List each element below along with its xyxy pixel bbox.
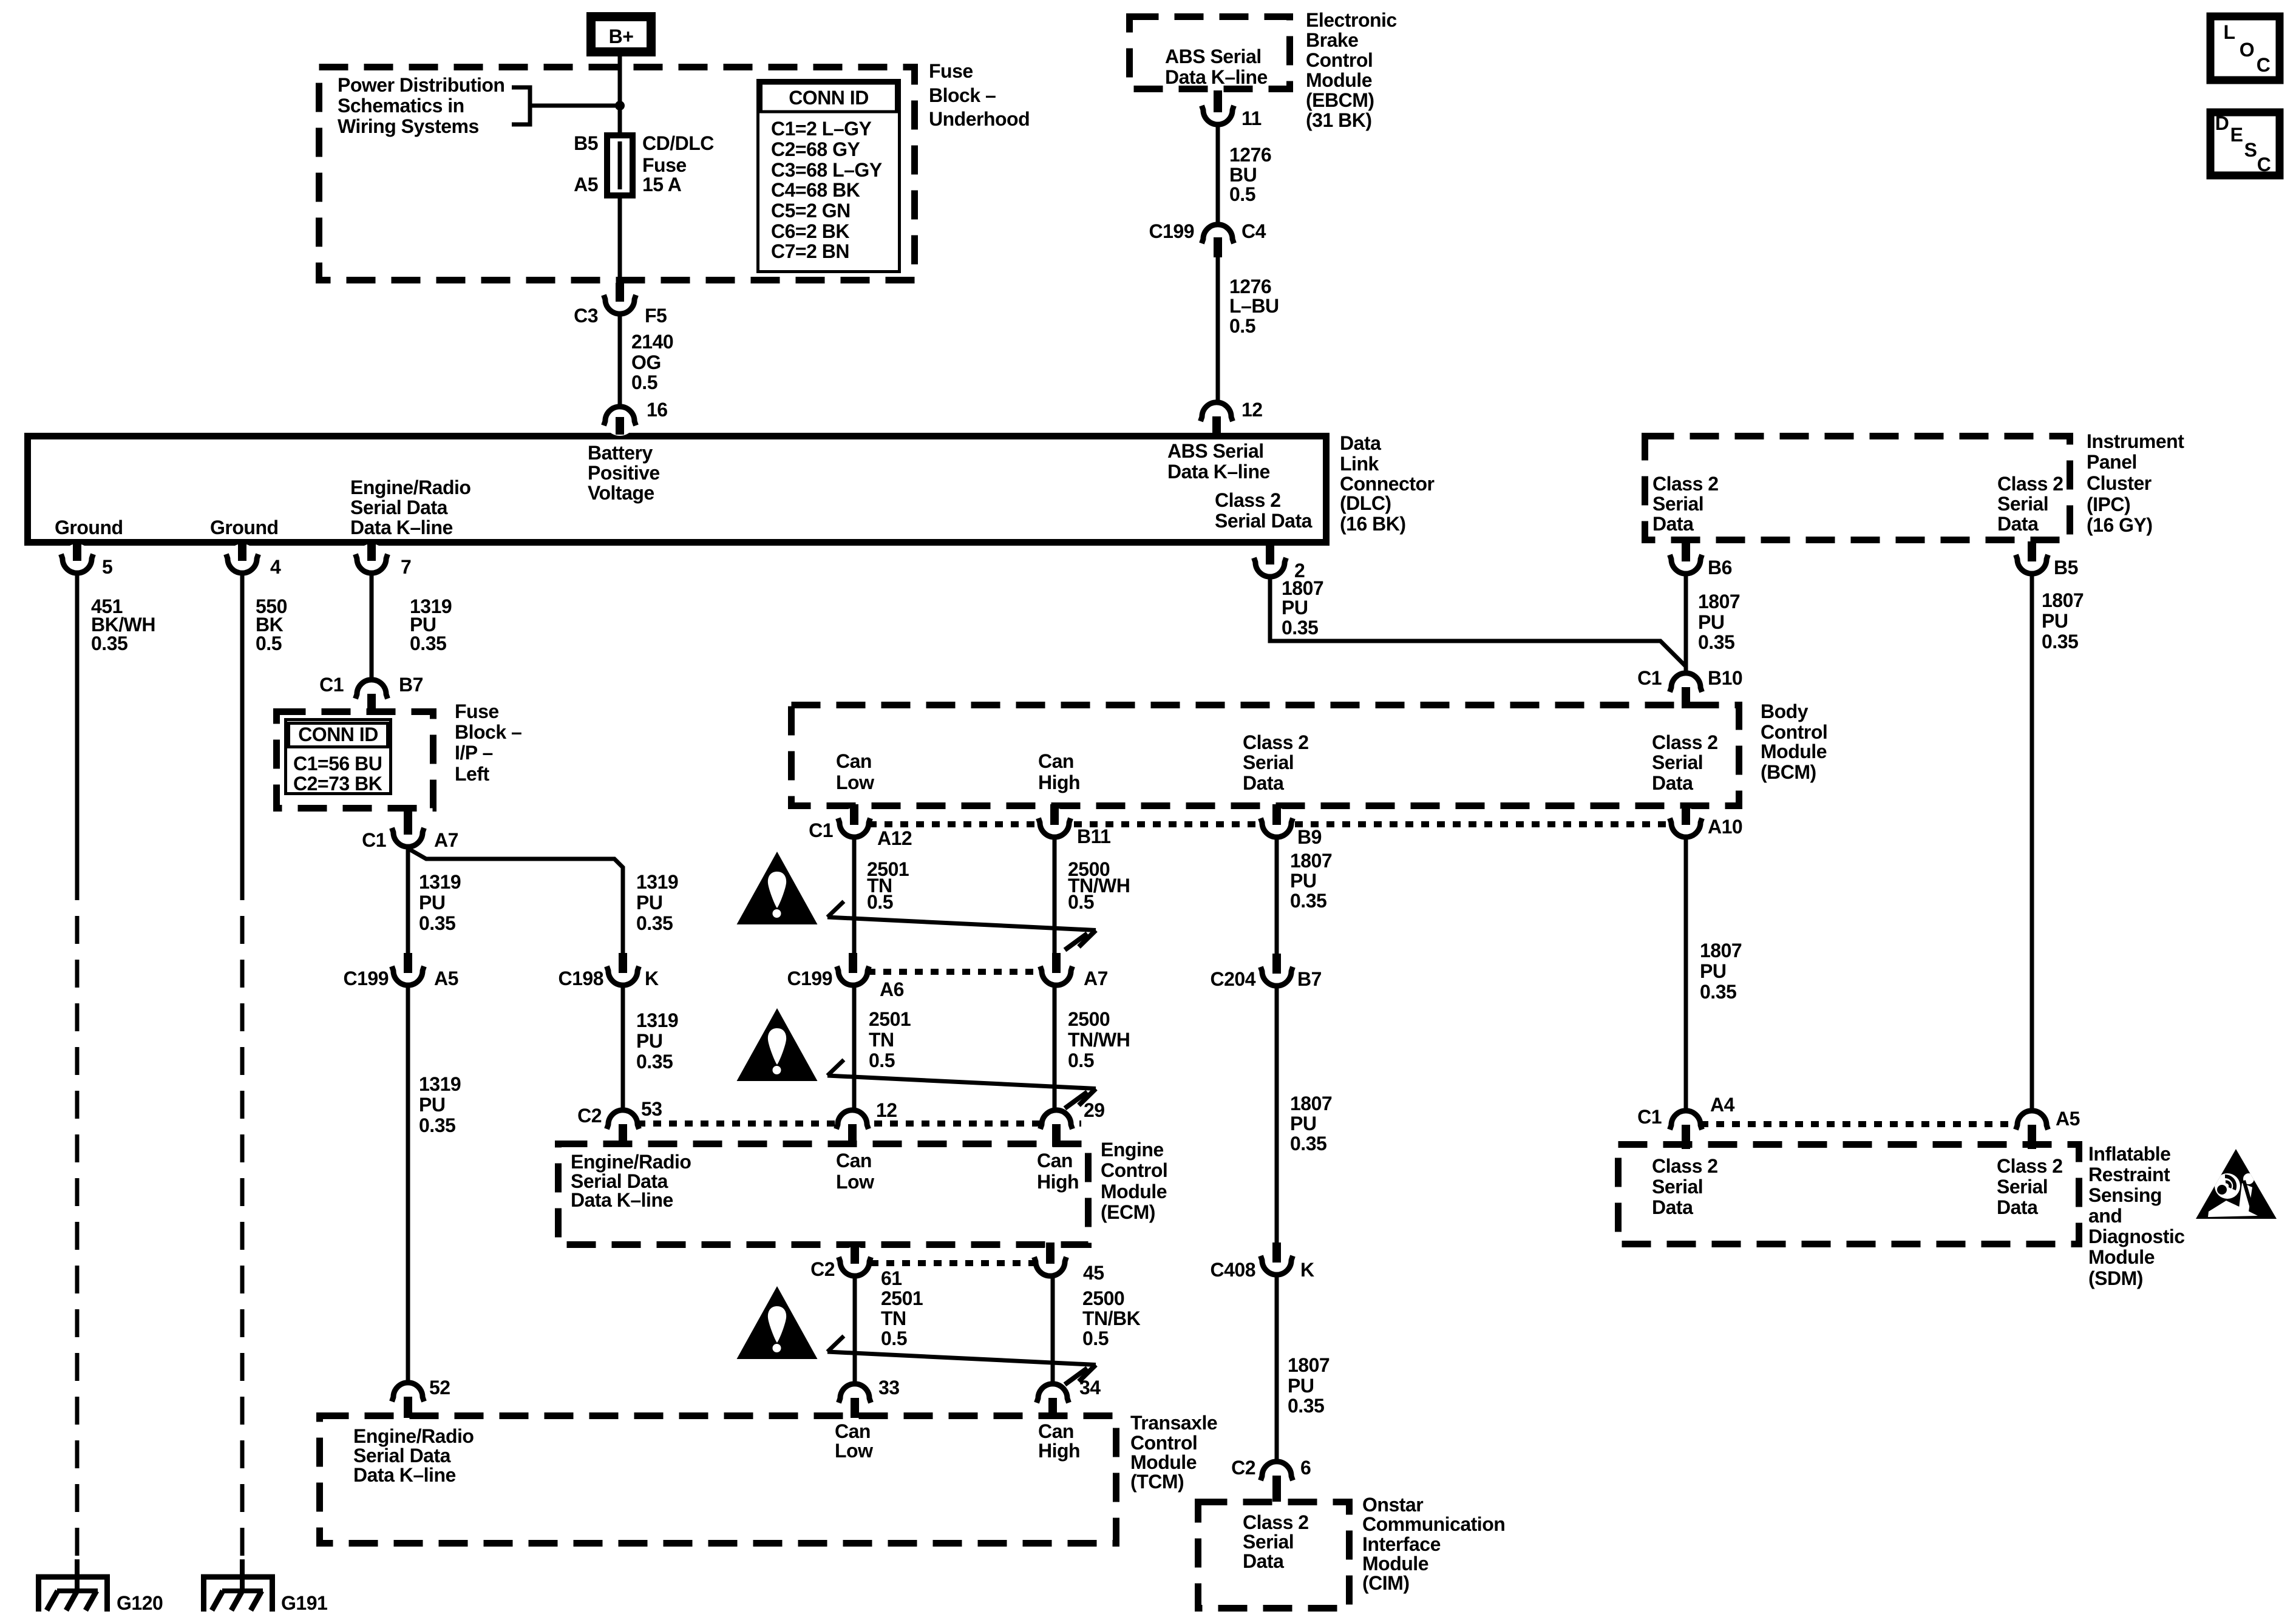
svg-text:Restraint: Restraint — [2088, 1164, 2170, 1185]
svg-text:0.5: 0.5 — [1068, 891, 1094, 913]
svg-text:Data K–line: Data K–line — [1167, 461, 1270, 483]
svg-text:C2=73 BK: C2=73 BK — [293, 773, 382, 795]
svg-text:A7: A7 — [434, 829, 458, 851]
svg-text:C5=2 GN: C5=2 GN — [771, 200, 851, 222]
svg-text:Connector: Connector — [1340, 473, 1435, 495]
svg-text:Data K–line: Data K–line — [571, 1189, 673, 1211]
svg-text:C199: C199 — [787, 968, 833, 989]
svg-text:Class 2: Class 2 — [1215, 489, 1281, 511]
svg-text:Engine/Radio: Engine/Radio — [571, 1151, 691, 1173]
svg-text:C408: C408 — [1211, 1259, 1256, 1281]
svg-text:Serial: Serial — [1652, 751, 1703, 773]
svg-text:Can: Can — [836, 750, 872, 772]
svg-text:12: 12 — [1241, 399, 1263, 421]
svg-text:Module: Module — [1306, 69, 1372, 91]
svg-text:C: C — [2257, 154, 2271, 175]
svg-text:Control: Control — [1761, 721, 1827, 743]
svg-text:1319: 1319 — [636, 1009, 678, 1031]
svg-text:TN: TN — [869, 1029, 894, 1051]
svg-text:Class 2: Class 2 — [1652, 1155, 1718, 1177]
svg-text:0.35: 0.35 — [91, 632, 127, 654]
svg-text:CONN ID: CONN ID — [789, 87, 869, 109]
svg-text:0.5: 0.5 — [1068, 1049, 1094, 1071]
svg-text:0.35: 0.35 — [419, 1114, 455, 1136]
svg-text:C: C — [2257, 54, 2271, 76]
svg-text:G120: G120 — [117, 1592, 163, 1614]
svg-text:0.35: 0.35 — [410, 632, 446, 654]
svg-text:I/P –: I/P – — [455, 742, 493, 764]
svg-text:45: 45 — [1083, 1262, 1104, 1284]
svg-text:1319: 1319 — [419, 1073, 461, 1095]
svg-text:E: E — [2230, 124, 2243, 146]
svg-text:TN: TN — [881, 1307, 906, 1329]
svg-text:Data: Data — [1340, 432, 1381, 454]
svg-text:F5: F5 — [645, 305, 667, 327]
svg-text:B9: B9 — [1297, 826, 1322, 848]
svg-text:7: 7 — [401, 556, 411, 578]
svg-text:Serial: Serial — [1997, 1176, 2048, 1198]
svg-text:0.35: 0.35 — [1282, 617, 1318, 639]
svg-text:(DLC): (DLC) — [1340, 492, 1391, 514]
svg-text:(EBCM): (EBCM) — [1306, 89, 1374, 111]
svg-text:C1=56 BU: C1=56 BU — [293, 753, 382, 775]
svg-text:ABS Serial: ABS Serial — [1167, 440, 1264, 462]
svg-text:(SDM): (SDM) — [2088, 1267, 2143, 1289]
svg-text:(16 BK): (16 BK) — [1340, 513, 1406, 535]
svg-text:C198: C198 — [559, 968, 604, 989]
svg-text:C4=68 BK: C4=68 BK — [771, 179, 860, 201]
svg-text:PU: PU — [1698, 611, 1724, 633]
svg-text:Diagnostic: Diagnostic — [2088, 1225, 2185, 1247]
svg-text:BU: BU — [1229, 164, 1257, 186]
svg-text:Module: Module — [1362, 1553, 1428, 1575]
svg-text:L–BU: L–BU — [1229, 295, 1279, 317]
svg-text:C1: C1 — [319, 674, 344, 696]
svg-text:A4: A4 — [1710, 1094, 1735, 1116]
svg-text:12: 12 — [876, 1099, 897, 1121]
svg-text:OG: OG — [631, 351, 661, 373]
svg-text:0.35: 0.35 — [1290, 1133, 1326, 1154]
svg-text:0.35: 0.35 — [636, 912, 673, 934]
svg-text:2140: 2140 — [631, 331, 673, 353]
svg-text:Can: Can — [1037, 1150, 1073, 1171]
svg-text:PU: PU — [636, 1030, 662, 1052]
svg-text:Brake: Brake — [1306, 29, 1358, 51]
svg-text:0.35: 0.35 — [1288, 1395, 1324, 1417]
svg-text:Onstar: Onstar — [1362, 1494, 1423, 1516]
svg-text:Class 2: Class 2 — [1652, 731, 1718, 753]
svg-text:A6: A6 — [880, 978, 904, 1000]
svg-text:A5: A5 — [574, 174, 598, 195]
svg-text:0.5: 0.5 — [1229, 315, 1255, 337]
svg-text:Can: Can — [1038, 1420, 1074, 1442]
svg-text:4: 4 — [270, 556, 281, 578]
svg-text:PU: PU — [2042, 610, 2068, 632]
svg-text:2501: 2501 — [869, 1008, 911, 1030]
svg-text:1807: 1807 — [1698, 591, 1740, 612]
svg-text:53: 53 — [641, 1098, 662, 1120]
svg-text:High: High — [1037, 1171, 1079, 1193]
svg-text:1319: 1319 — [636, 871, 678, 893]
svg-text:Ground: Ground — [210, 517, 279, 538]
svg-text:C204: C204 — [1211, 968, 1256, 990]
svg-text:Data: Data — [1997, 513, 2039, 535]
svg-text:Cluster: Cluster — [2087, 472, 2152, 494]
svg-text:Module: Module — [1101, 1181, 1167, 1202]
svg-text:2500: 2500 — [1082, 1287, 1124, 1309]
svg-text:Data K–line: Data K–line — [1165, 66, 1268, 88]
svg-text:Panel: Panel — [2087, 451, 2137, 473]
svg-text:PU: PU — [419, 892, 445, 914]
svg-text:K: K — [1300, 1259, 1314, 1281]
svg-text:PU: PU — [1290, 870, 1316, 892]
svg-text:O: O — [2240, 39, 2254, 61]
svg-text:C1=2 L–GY: C1=2 L–GY — [771, 118, 872, 140]
svg-text:1807: 1807 — [1700, 940, 1742, 961]
svg-text:Serial: Serial — [1652, 1176, 1703, 1198]
svg-text:0.5: 0.5 — [631, 371, 657, 393]
svg-text:C7=2 BN: C7=2 BN — [771, 240, 849, 262]
svg-text:Instrument: Instrument — [2087, 430, 2184, 452]
svg-text:1807: 1807 — [2042, 589, 2084, 611]
svg-text:Schematics in: Schematics in — [338, 95, 464, 117]
svg-text:C2=68 GY: C2=68 GY — [771, 138, 860, 160]
svg-text:(ECM): (ECM) — [1101, 1201, 1155, 1223]
svg-text:Body: Body — [1761, 700, 1809, 722]
svg-text:A7: A7 — [1084, 968, 1108, 989]
svg-text:1807: 1807 — [1282, 577, 1323, 599]
svg-text:D: D — [2215, 112, 2229, 134]
svg-text:Link: Link — [1340, 453, 1379, 475]
svg-text:0.5: 0.5 — [256, 632, 282, 654]
svg-text:Low: Low — [835, 1440, 873, 1462]
svg-text:Low: Low — [836, 1171, 874, 1193]
svg-text:33: 33 — [878, 1377, 900, 1398]
svg-text:CONN ID: CONN ID — [298, 724, 378, 745]
svg-text:Inflatable: Inflatable — [2088, 1143, 2170, 1165]
svg-text:0.5: 0.5 — [1082, 1327, 1109, 1349]
svg-text:Data K–line: Data K–line — [350, 517, 453, 538]
svg-text:0.5: 0.5 — [869, 1049, 895, 1071]
svg-text:Communication: Communication — [1362, 1513, 1505, 1535]
svg-text:PU: PU — [1288, 1375, 1314, 1397]
svg-text:0.35: 0.35 — [636, 1051, 673, 1073]
svg-text:Serial Data: Serial Data — [1215, 510, 1313, 532]
svg-text:5: 5 — [102, 556, 112, 578]
svg-text:Can: Can — [1038, 750, 1074, 772]
svg-text:2500: 2500 — [1068, 1008, 1110, 1030]
svg-text:TN/BK: TN/BK — [1082, 1307, 1141, 1329]
svg-text:Battery: Battery — [588, 442, 653, 464]
svg-text:B10: B10 — [1708, 667, 1742, 689]
svg-text:Serial: Serial — [1243, 751, 1294, 773]
svg-text:0.35: 0.35 — [1290, 890, 1326, 912]
svg-text:Serial Data: Serial Data — [350, 497, 448, 518]
svg-text:16: 16 — [647, 399, 668, 421]
svg-text:Engine: Engine — [1101, 1139, 1164, 1161]
svg-text:C199: C199 — [344, 968, 389, 989]
svg-text:C199: C199 — [1149, 220, 1195, 242]
svg-text:1807: 1807 — [1288, 1354, 1330, 1376]
svg-text:2501: 2501 — [881, 1287, 923, 1309]
svg-text:(IPC): (IPC) — [2087, 493, 2130, 515]
svg-text:Module: Module — [1130, 1451, 1197, 1473]
svg-text:Engine/Radio: Engine/Radio — [353, 1425, 474, 1447]
svg-text:Transaxle: Transaxle — [1130, 1412, 1217, 1434]
svg-text:0.35: 0.35 — [1700, 981, 1736, 1003]
svg-text:C1: C1 — [1637, 667, 1662, 689]
svg-text:ABS Serial: ABS Serial — [1165, 46, 1262, 67]
svg-text:High: High — [1038, 1440, 1080, 1462]
svg-text:Data K–line: Data K–line — [353, 1464, 456, 1486]
svg-text:Control: Control — [1306, 49, 1373, 71]
svg-text:Voltage: Voltage — [588, 482, 654, 504]
svg-text:(TCM): (TCM) — [1130, 1471, 1184, 1493]
svg-text:1276: 1276 — [1229, 144, 1271, 166]
svg-text:1319: 1319 — [419, 871, 461, 893]
svg-text:B7: B7 — [399, 674, 423, 696]
svg-text:Class 2: Class 2 — [1997, 473, 2063, 495]
svg-text:C6=2 BK: C6=2 BK — [771, 220, 849, 242]
svg-text:Data: Data — [1652, 772, 1693, 794]
svg-text:6: 6 — [1300, 1457, 1311, 1479]
svg-text:B5: B5 — [574, 132, 598, 154]
svg-text:Can: Can — [835, 1420, 871, 1442]
svg-text:(31 BK): (31 BK) — [1306, 109, 1372, 131]
svg-text:A5: A5 — [2056, 1108, 2080, 1130]
svg-text:C1: C1 — [362, 829, 386, 851]
svg-text:29: 29 — [1084, 1099, 1105, 1121]
svg-text:Data: Data — [1243, 1550, 1284, 1572]
svg-text:61: 61 — [881, 1267, 902, 1289]
svg-text:0.5: 0.5 — [881, 1327, 907, 1349]
svg-text:High: High — [1038, 771, 1080, 793]
svg-text:B11: B11 — [1077, 825, 1110, 847]
svg-text:C1: C1 — [1637, 1106, 1662, 1128]
svg-text:Fuse: Fuse — [929, 60, 973, 82]
svg-text:Left: Left — [455, 763, 490, 785]
svg-text:Sensing: Sensing — [2088, 1184, 2162, 1206]
svg-text:0.35: 0.35 — [2042, 631, 2078, 653]
svg-text:A10: A10 — [1708, 816, 1742, 838]
svg-text:S: S — [2244, 139, 2257, 161]
svg-text:Control: Control — [1101, 1159, 1167, 1181]
svg-text:(CIM): (CIM) — [1362, 1572, 1409, 1594]
svg-text:Module: Module — [1761, 741, 1827, 762]
svg-text:Data: Data — [1243, 772, 1284, 794]
svg-text:0.35: 0.35 — [1698, 631, 1734, 653]
svg-text:B6: B6 — [1708, 557, 1732, 578]
svg-text:C2: C2 — [810, 1258, 835, 1280]
svg-text:Serial: Serial — [1652, 493, 1703, 515]
svg-text:Data: Data — [1652, 513, 1694, 535]
svg-text:B+: B+ — [609, 25, 634, 47]
svg-text:Wiring Systems: Wiring Systems — [338, 115, 479, 137]
svg-text:Power Distribution: Power Distribution — [338, 74, 504, 96]
svg-text:Module: Module — [2088, 1246, 2155, 1268]
svg-text:Positive: Positive — [588, 462, 660, 484]
svg-text:Low: Low — [836, 771, 874, 793]
svg-text:52: 52 — [429, 1377, 450, 1398]
svg-text:TN/WH: TN/WH — [1068, 1029, 1130, 1051]
svg-text:C3: C3 — [574, 305, 598, 327]
svg-text:(BCM): (BCM) — [1761, 761, 1816, 783]
svg-text:Class 2: Class 2 — [1243, 731, 1309, 753]
svg-text:0.35: 0.35 — [419, 912, 455, 934]
svg-text:Data: Data — [1652, 1196, 1693, 1218]
svg-text:0.5: 0.5 — [1229, 183, 1255, 205]
svg-text:Class 2: Class 2 — [1243, 1511, 1309, 1533]
svg-text:PU: PU — [1700, 960, 1726, 982]
svg-text:1807: 1807 — [1290, 850, 1332, 872]
svg-text:Ground: Ground — [55, 517, 123, 538]
svg-text:Fuse: Fuse — [455, 700, 499, 722]
svg-text:K: K — [645, 968, 659, 989]
svg-text:Engine/Radio: Engine/Radio — [350, 476, 470, 498]
svg-text:C3=68 L–GY: C3=68 L–GY — [771, 159, 882, 181]
svg-text:B5: B5 — [2054, 557, 2078, 578]
svg-text:B7: B7 — [1297, 968, 1322, 990]
svg-text:Interface: Interface — [1362, 1533, 1441, 1555]
svg-text:A5: A5 — [434, 968, 458, 989]
svg-text:PU: PU — [419, 1094, 445, 1116]
svg-text:C4: C4 — [1241, 220, 1266, 242]
svg-text:Block –: Block – — [929, 84, 996, 106]
svg-text:C2: C2 — [577, 1105, 602, 1127]
svg-text:PU: PU — [1282, 597, 1308, 619]
svg-text:15 A: 15 A — [642, 174, 682, 195]
svg-text:L: L — [2223, 21, 2235, 43]
svg-text:Can: Can — [836, 1150, 872, 1171]
svg-text:Underhood: Underhood — [929, 108, 1030, 130]
svg-text:Class 2: Class 2 — [1652, 473, 1719, 495]
svg-text:Class 2: Class 2 — [1997, 1155, 2063, 1177]
svg-text:and: and — [2088, 1205, 2122, 1227]
svg-text:CD/DLC: CD/DLC — [642, 132, 714, 154]
svg-text:G191: G191 — [281, 1592, 327, 1614]
svg-text:C2: C2 — [1231, 1457, 1255, 1479]
svg-text:Serial: Serial — [1243, 1531, 1294, 1553]
svg-text:C1: C1 — [809, 819, 833, 841]
svg-text:Electronic: Electronic — [1306, 9, 1397, 31]
svg-text:Control: Control — [1130, 1432, 1197, 1454]
svg-text:Serial Data: Serial Data — [353, 1445, 451, 1466]
svg-text:Block –: Block – — [455, 721, 521, 743]
svg-text:1807: 1807 — [1290, 1093, 1332, 1114]
svg-text:0.5: 0.5 — [867, 891, 893, 913]
svg-text:1276: 1276 — [1229, 276, 1271, 297]
svg-text:(16 GY): (16 GY) — [2087, 514, 2153, 536]
svg-text:Fuse: Fuse — [642, 154, 687, 176]
svg-text:34: 34 — [1079, 1377, 1101, 1398]
svg-text:11: 11 — [1241, 107, 1262, 129]
svg-text:PU: PU — [636, 892, 662, 914]
svg-text:Data: Data — [1997, 1196, 2038, 1218]
svg-text:A12: A12 — [877, 827, 912, 849]
svg-text:PU: PU — [1290, 1113, 1316, 1134]
svg-text:Serial: Serial — [1997, 493, 2048, 515]
